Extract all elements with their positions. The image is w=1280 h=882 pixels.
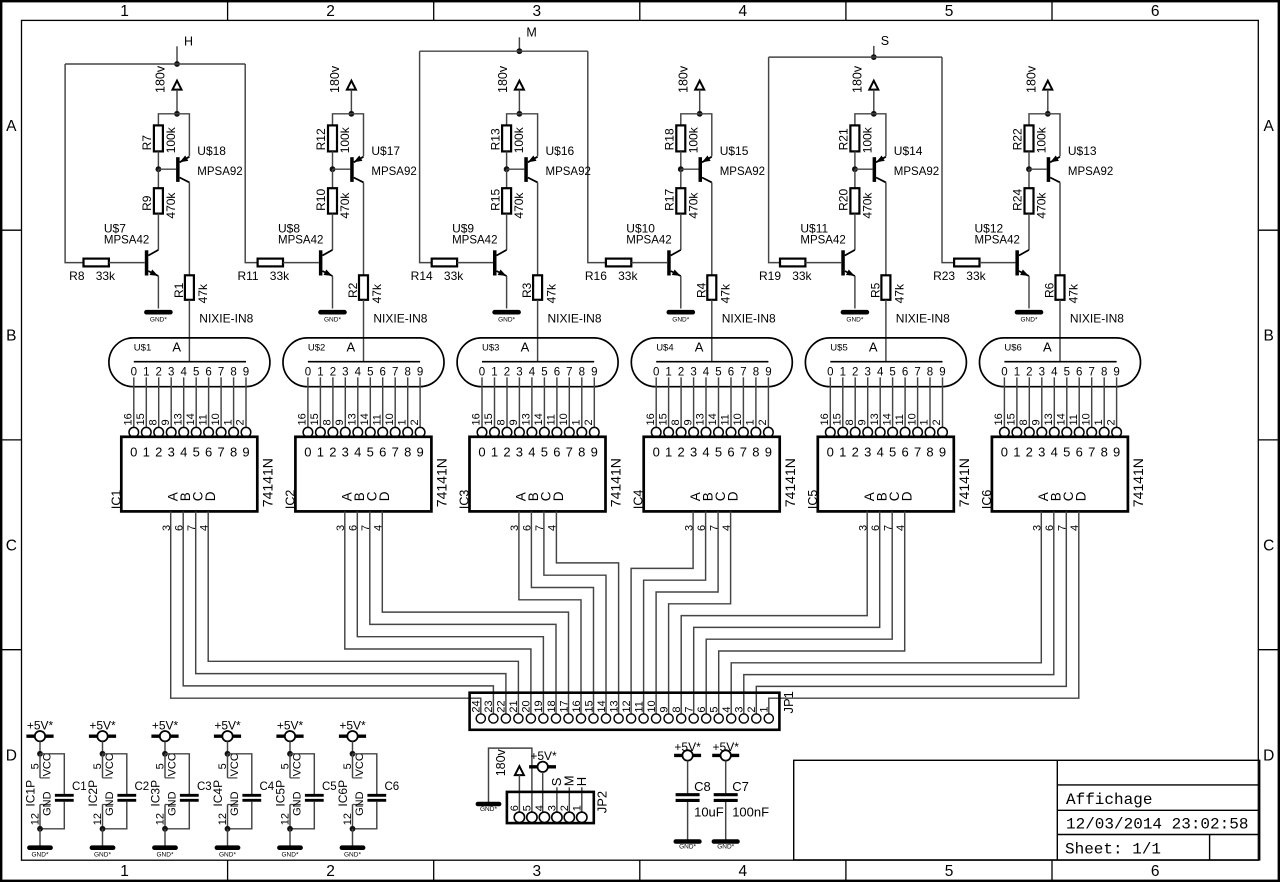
svg-text:8: 8 bbox=[753, 367, 759, 379]
resistor R24 470k bbox=[1011, 188, 1049, 218]
svg-text:8: 8 bbox=[1018, 419, 1030, 425]
svg-text:A: A bbox=[695, 339, 704, 354]
svg-text:R12: R12 bbox=[314, 128, 328, 150]
transistor U$8 MPSA42 (NPN) bbox=[278, 221, 333, 276]
supply +5V for IC5P bbox=[276, 719, 303, 742]
svg-text:GND: GND bbox=[229, 791, 241, 816]
ground bbox=[843, 312, 867, 323]
svg-text:R13: R13 bbox=[488, 128, 502, 150]
ground bbox=[29, 848, 50, 859]
svg-text:13: 13 bbox=[608, 700, 620, 712]
svg-text:13: 13 bbox=[1043, 413, 1055, 425]
svg-text:16: 16 bbox=[993, 413, 1005, 425]
svg-text:11: 11 bbox=[197, 414, 209, 425]
junction 180v rail bbox=[174, 111, 180, 117]
svg-text:1: 1 bbox=[571, 805, 583, 811]
svg-text:7: 7 bbox=[392, 367, 398, 379]
wire U$10 emitter to ground bbox=[680, 276, 682, 309]
wire IC4 pin 6 to JP1 pin 11 bbox=[644, 511, 706, 714]
svg-text:180v: 180v bbox=[494, 748, 508, 776]
svg-text:24: 24 bbox=[471, 700, 483, 712]
svg-text:NIXIE-IN8: NIXIE-IN8 bbox=[896, 312, 950, 326]
svg-text:2: 2 bbox=[155, 445, 162, 460]
svg-text:16: 16 bbox=[471, 413, 483, 425]
connector JP2 (6 pins) bbox=[507, 791, 610, 823]
svg-text:14: 14 bbox=[359, 413, 371, 425]
wire U$9 emitter to ground bbox=[506, 276, 508, 309]
svg-text:4: 4 bbox=[721, 706, 733, 712]
resistor R21 100k bbox=[837, 125, 875, 153]
svg-text:5: 5 bbox=[193, 367, 199, 379]
ground bbox=[495, 312, 519, 323]
resistor R17 470k bbox=[663, 188, 701, 218]
svg-text:13: 13 bbox=[172, 413, 184, 425]
svg-text:9: 9 bbox=[682, 419, 694, 425]
svg-text:IC1: IC1 bbox=[109, 490, 123, 510]
resistor R22 100k bbox=[1011, 125, 1049, 153]
svg-text:6: 6 bbox=[553, 445, 560, 460]
wire +5V to C8 bbox=[687, 761, 689, 794]
wire base of U$14 bbox=[855, 168, 873, 170]
ground bbox=[92, 848, 113, 859]
svg-text:5: 5 bbox=[155, 763, 167, 769]
junction H node bbox=[174, 61, 180, 67]
wire S down to R19 bbox=[769, 57, 780, 263]
svg-text:7: 7 bbox=[914, 367, 920, 379]
svg-text:2: 2 bbox=[329, 445, 336, 460]
svg-text:6: 6 bbox=[901, 445, 908, 460]
power gate IC5P pins VCC(5)/GND(12) bbox=[274, 753, 304, 829]
svg-text:74141N: 74141N bbox=[1130, 458, 1146, 507]
svg-text:R22: R22 bbox=[1011, 128, 1025, 150]
svg-text:M: M bbox=[526, 26, 536, 40]
svg-text:1: 1 bbox=[840, 367, 846, 379]
svg-text:2: 2 bbox=[757, 419, 769, 425]
wire 180v supply to rail bbox=[176, 90, 178, 114]
wire U$8 emitter to ground bbox=[332, 276, 334, 309]
svg-text:14: 14 bbox=[1056, 413, 1068, 425]
svg-text:21: 21 bbox=[508, 700, 520, 712]
resistor R5 47k bbox=[868, 275, 906, 303]
svg-text:R23: R23 bbox=[933, 269, 955, 283]
svg-text:GND*: GND* bbox=[94, 851, 111, 858]
svg-text:12: 12 bbox=[342, 813, 354, 825]
svg-text:MPSA92: MPSA92 bbox=[371, 166, 416, 178]
wire R15 to U$9 collector bbox=[506, 214, 508, 250]
wires nixie U$4 cathodes to IC4 bbox=[656, 377, 768, 427]
svg-text:47k: 47k bbox=[719, 283, 733, 303]
svg-text:6: 6 bbox=[902, 367, 908, 379]
svg-text:NIXIE-IN8: NIXIE-IN8 bbox=[722, 312, 776, 326]
svg-text:3: 3 bbox=[516, 367, 522, 379]
svg-text:3: 3 bbox=[864, 367, 870, 379]
svg-text:R17: R17 bbox=[663, 189, 677, 211]
svg-text:GND*: GND* bbox=[679, 844, 696, 851]
transistor U$10 MPSA42 (NPN) bbox=[626, 221, 681, 276]
svg-text:R4: R4 bbox=[694, 282, 708, 298]
svg-text:U$9: U$9 bbox=[452, 221, 474, 235]
wire R17 to U$10 collector bbox=[680, 214, 682, 250]
resistor R4 47k bbox=[694, 275, 732, 303]
svg-text:U$3: U$3 bbox=[482, 342, 499, 353]
svg-text:0: 0 bbox=[827, 367, 833, 379]
junction base divider bbox=[678, 166, 684, 172]
svg-text:6: 6 bbox=[554, 367, 560, 379]
svg-text:A: A bbox=[172, 339, 181, 354]
svg-text:180v: 180v bbox=[851, 65, 865, 93]
svg-text:13: 13 bbox=[521, 413, 533, 425]
svg-text:U$11: U$11 bbox=[800, 221, 828, 235]
svg-text:IC5P: IC5P bbox=[274, 780, 288, 807]
svg-text:3: 3 bbox=[1038, 445, 1045, 460]
ground bbox=[342, 848, 363, 859]
wire IC2 pin 4 to JP1 pin 17 bbox=[382, 511, 568, 714]
svg-text:9: 9 bbox=[508, 419, 520, 425]
wire R13 to base junction bbox=[506, 151, 508, 169]
svg-text:12: 12 bbox=[621, 700, 633, 712]
svg-text:4: 4 bbox=[1051, 445, 1058, 460]
svg-text:100k: 100k bbox=[1035, 126, 1049, 153]
svg-text:IC2: IC2 bbox=[283, 490, 297, 510]
junction 180v rail bbox=[517, 111, 523, 117]
wire R11 to U$8 base bbox=[283, 262, 319, 264]
svg-text:MPSA42: MPSA42 bbox=[452, 234, 497, 246]
svg-text:GND*: GND* bbox=[1021, 317, 1038, 324]
svg-text:4: 4 bbox=[528, 445, 535, 460]
svg-text:10: 10 bbox=[646, 700, 658, 712]
svg-text:R24: R24 bbox=[1011, 189, 1025, 211]
svg-text:Sheet: 1/1: Sheet: 1/1 bbox=[1065, 840, 1161, 858]
svg-text:U$4: U$4 bbox=[656, 342, 673, 353]
wire R16 to U$10 base bbox=[631, 262, 667, 264]
transistor U$18 MPSA92 (PNP) bbox=[176, 144, 243, 183]
resistor R13 100k bbox=[488, 125, 526, 153]
svg-text:470k: 470k bbox=[860, 192, 874, 219]
wire IC2 pin 3 to JP1 pin 20 bbox=[345, 511, 531, 714]
svg-text:33k: 33k bbox=[618, 269, 638, 283]
wire R12 to base junction bbox=[332, 151, 334, 169]
supply +5V for IC3P bbox=[151, 719, 178, 742]
svg-text:9: 9 bbox=[1031, 419, 1043, 425]
svg-text:NIXIE-IN8: NIXIE-IN8 bbox=[1070, 312, 1124, 326]
svg-text:GND*: GND* bbox=[219, 851, 236, 858]
wire U$16 collector to R3 bbox=[537, 182, 539, 275]
wires nixie U$3 cathodes to IC3 bbox=[482, 377, 594, 427]
junction base divider bbox=[1026, 166, 1032, 172]
svg-text:14: 14 bbox=[596, 700, 608, 712]
svg-text:470k: 470k bbox=[338, 192, 352, 219]
svg-text:0: 0 bbox=[305, 367, 311, 379]
supply +5V at C8 bbox=[674, 740, 701, 760]
svg-text:MPSA92: MPSA92 bbox=[720, 166, 765, 178]
svg-text:8: 8 bbox=[147, 419, 159, 425]
svg-text:1: 1 bbox=[665, 445, 672, 460]
svg-text:U$6: U$6 bbox=[1004, 342, 1021, 353]
svg-text:R2: R2 bbox=[346, 282, 360, 298]
svg-text:16: 16 bbox=[571, 700, 583, 712]
wires nixie U$2 cathodes to IC2 bbox=[308, 377, 420, 427]
svg-text:5: 5 bbox=[945, 863, 954, 880]
svg-text:VCC: VCC bbox=[354, 753, 366, 776]
svg-text:8: 8 bbox=[1101, 367, 1107, 379]
svg-text:8: 8 bbox=[322, 419, 334, 425]
supply +5V at JP2 pin 4 bbox=[529, 749, 557, 772]
wire 180v supply to rail bbox=[350, 90, 352, 114]
capacitor C3 decoupling bbox=[165, 754, 212, 829]
svg-text:15: 15 bbox=[135, 413, 147, 425]
resistor R19 33k bbox=[759, 259, 813, 283]
svg-text:470k: 470k bbox=[512, 192, 526, 219]
svg-text:100k: 100k bbox=[860, 126, 874, 153]
svg-text:R7: R7 bbox=[140, 135, 154, 151]
svg-text:5: 5 bbox=[521, 805, 533, 811]
svg-text:GND: GND bbox=[41, 791, 53, 816]
svg-text:100nF: 100nF bbox=[732, 805, 769, 820]
wire R7 to R9 bbox=[157, 169, 159, 188]
svg-text:U$13: U$13 bbox=[1068, 144, 1097, 158]
power gate IC4P pins VCC(5)/GND(12) bbox=[211, 753, 241, 829]
svg-text:74141N: 74141N bbox=[956, 458, 972, 507]
svg-text:17: 17 bbox=[558, 700, 570, 712]
wire to ground bbox=[352, 829, 354, 846]
wire IC2 pin 6 to JP1 pin 19 bbox=[357, 511, 543, 714]
svg-text:8: 8 bbox=[844, 419, 856, 425]
frame row letters bbox=[6, 118, 1275, 765]
svg-text:1: 1 bbox=[143, 367, 149, 379]
junction M node bbox=[517, 48, 523, 54]
wire H horizontal rail bbox=[65, 63, 245, 65]
svg-text:IC2P: IC2P bbox=[86, 780, 100, 807]
supply +5V at C7 bbox=[712, 740, 739, 760]
wire M down to R16 (next column) bbox=[588, 51, 606, 262]
svg-text:2: 2 bbox=[931, 419, 943, 425]
svg-text:6: 6 bbox=[1151, 3, 1160, 20]
power gate IC2P pins VCC(5)/GND(12) bbox=[86, 753, 116, 829]
svg-text:C2: C2 bbox=[135, 781, 150, 793]
svg-text:5: 5 bbox=[715, 367, 721, 379]
svg-text:13: 13 bbox=[869, 413, 881, 425]
wire IC5 pin 3 to JP1 pin 8 bbox=[681, 511, 867, 714]
svg-text:C: C bbox=[1263, 537, 1274, 554]
svg-text:1: 1 bbox=[839, 445, 846, 460]
wire 180v supply to rail bbox=[873, 90, 875, 114]
svg-text:D: D bbox=[377, 491, 392, 501]
svg-text:C1: C1 bbox=[72, 781, 87, 793]
svg-text:S: S bbox=[881, 34, 889, 48]
svg-text:9: 9 bbox=[765, 445, 772, 460]
ground bbox=[1017, 312, 1041, 323]
svg-text:GND: GND bbox=[291, 791, 303, 816]
junction GND pin bbox=[287, 826, 293, 832]
capacitor C1 decoupling bbox=[40, 754, 87, 829]
svg-text:GND*: GND* bbox=[672, 317, 689, 324]
svg-text:11: 11 bbox=[546, 414, 558, 425]
IC IC3 74141N driver bbox=[458, 413, 624, 531]
svg-text:D: D bbox=[1263, 748, 1274, 765]
svg-text:1: 1 bbox=[1093, 419, 1105, 425]
svg-text:14: 14 bbox=[533, 413, 545, 425]
svg-text:R6: R6 bbox=[1043, 282, 1057, 298]
wire 180v rail to R21 and U$14 emitter bbox=[855, 114, 886, 157]
wire C7 to ground bbox=[725, 802, 727, 840]
svg-text:R9: R9 bbox=[140, 195, 154, 211]
svg-text:7: 7 bbox=[914, 445, 921, 460]
svg-text:1: 1 bbox=[120, 863, 129, 880]
svg-text:C5: C5 bbox=[322, 781, 337, 793]
junction GND pin bbox=[225, 826, 231, 832]
svg-text:7: 7 bbox=[684, 706, 696, 712]
svg-text:7: 7 bbox=[217, 445, 224, 460]
svg-text:C6: C6 bbox=[385, 781, 400, 793]
svg-text:8: 8 bbox=[496, 419, 508, 425]
wires nixie U$1 cathodes to IC1 bbox=[134, 377, 246, 427]
svg-text:2: 2 bbox=[409, 419, 421, 425]
resistor R6 47k bbox=[1043, 275, 1081, 303]
svg-text:U$17: U$17 bbox=[371, 144, 400, 158]
svg-text:33k: 33k bbox=[96, 269, 116, 283]
svg-text:JP2: JP2 bbox=[595, 791, 610, 813]
svg-text:3: 3 bbox=[516, 445, 523, 460]
svg-text:VCC: VCC bbox=[104, 753, 116, 776]
wire R13 to R15 bbox=[506, 169, 508, 188]
svg-text:8: 8 bbox=[927, 367, 933, 379]
svg-text:33k: 33k bbox=[444, 269, 464, 283]
svg-text:3: 3 bbox=[1039, 367, 1045, 379]
svg-text:U$15: U$15 bbox=[720, 144, 749, 158]
ground bbox=[714, 842, 738, 851]
svg-text:2: 2 bbox=[1105, 419, 1117, 425]
svg-text:MPSA42: MPSA42 bbox=[278, 234, 323, 246]
svg-text:8: 8 bbox=[230, 367, 236, 379]
svg-text:9: 9 bbox=[939, 445, 946, 460]
node S net label and stub bbox=[874, 34, 889, 57]
svg-text:5: 5 bbox=[945, 3, 954, 20]
wire R5 to nixie anode bbox=[885, 300, 887, 362]
wire 180v supply to rail bbox=[518, 90, 520, 114]
transistor U$15 MPSA92 (PNP) bbox=[699, 144, 766, 183]
svg-text:4: 4 bbox=[877, 445, 884, 460]
wire H down to R11 (next column) bbox=[245, 64, 257, 263]
wire 180v rail to R13 and U$16 emitter bbox=[507, 114, 538, 157]
svg-text:100k: 100k bbox=[512, 126, 526, 153]
svg-text:0: 0 bbox=[1001, 367, 1007, 379]
capacitor C8 10uF bbox=[676, 779, 724, 820]
nixie tube U$4 NIXIE-IN8 bbox=[631, 338, 792, 387]
svg-text:U$2: U$2 bbox=[308, 342, 325, 353]
svg-text:A: A bbox=[6, 118, 17, 135]
svg-text:1: 1 bbox=[317, 445, 324, 460]
svg-text:NIXIE-IN8: NIXIE-IN8 bbox=[373, 312, 427, 326]
svg-text:9: 9 bbox=[242, 445, 249, 460]
svg-text:13: 13 bbox=[347, 413, 359, 425]
wire R3 to nixie anode bbox=[537, 300, 539, 362]
transistor U$14 MPSA92 (PNP) bbox=[873, 144, 940, 183]
wire base of U$16 bbox=[507, 168, 525, 170]
supply 180v column 6 bbox=[1025, 65, 1053, 93]
nixie tube U$6 NIXIE-IN8 bbox=[980, 338, 1141, 387]
svg-text:8: 8 bbox=[578, 445, 585, 460]
svg-text:R8: R8 bbox=[69, 269, 85, 283]
svg-text:12: 12 bbox=[155, 813, 167, 825]
svg-text:23: 23 bbox=[483, 700, 495, 712]
wire IC1 pin 3 to JP1 pin 24 bbox=[171, 511, 481, 714]
node M stub to JP2 pin 2 bbox=[562, 775, 577, 812]
svg-text:GND*: GND* bbox=[32, 851, 49, 858]
wire +5V to C7 bbox=[725, 761, 727, 794]
svg-text:MPSA92: MPSA92 bbox=[1068, 166, 1113, 178]
svg-text:8: 8 bbox=[579, 367, 585, 379]
svg-text:IC3P: IC3P bbox=[149, 780, 163, 807]
svg-text:C4: C4 bbox=[260, 781, 275, 793]
junction VCC bbox=[37, 751, 43, 757]
svg-text:JP1: JP1 bbox=[781, 691, 796, 713]
svg-text:GND*: GND* bbox=[498, 317, 515, 324]
svg-text:1: 1 bbox=[1013, 445, 1020, 460]
junction VCC bbox=[100, 751, 106, 757]
wire to ground bbox=[289, 829, 291, 846]
svg-text:9: 9 bbox=[1113, 445, 1120, 460]
ground bbox=[154, 848, 175, 859]
svg-text:4: 4 bbox=[534, 805, 546, 811]
svg-text:5: 5 bbox=[367, 367, 373, 379]
svg-text:6: 6 bbox=[696, 706, 708, 712]
IC IC2 74141N driver bbox=[283, 413, 449, 531]
svg-text:R10: R10 bbox=[314, 189, 328, 211]
ground bbox=[217, 848, 238, 859]
wire U$15 collector to R4 bbox=[711, 182, 713, 275]
svg-text:9: 9 bbox=[417, 367, 423, 379]
wire +5V to VCC pin bbox=[164, 741, 166, 753]
nixie tube U$5 NIXIE-IN8 bbox=[805, 338, 966, 387]
svg-text:1: 1 bbox=[1014, 367, 1020, 379]
svg-text:U$1: U$1 bbox=[134, 342, 151, 353]
svg-text:4: 4 bbox=[354, 445, 361, 460]
supply +5V for IC6P bbox=[339, 719, 366, 742]
svg-text:1: 1 bbox=[759, 706, 771, 712]
node M net label and stub bbox=[519, 26, 536, 52]
svg-text:15: 15 bbox=[309, 413, 321, 425]
wire R22 to R24 bbox=[1028, 169, 1030, 188]
svg-text:IC4P: IC4P bbox=[211, 780, 225, 807]
capacitor C6 decoupling bbox=[353, 754, 400, 829]
wire IC3 pin 7 to JP1 pin 14 bbox=[544, 511, 606, 714]
junction 180v rail bbox=[1045, 111, 1051, 117]
IC IC5 74141N driver bbox=[806, 413, 972, 531]
wire R22 to base junction bbox=[1028, 151, 1030, 169]
wire +5V to VCC pin bbox=[102, 741, 104, 753]
svg-text:3: 3 bbox=[546, 805, 558, 811]
svg-text:4: 4 bbox=[738, 863, 747, 880]
svg-text:1: 1 bbox=[919, 419, 931, 425]
svg-text:11: 11 bbox=[1068, 414, 1080, 425]
svg-text:4: 4 bbox=[355, 367, 362, 379]
svg-text:0: 0 bbox=[1001, 445, 1008, 460]
IC IC1 74141N driver bbox=[109, 413, 275, 531]
svg-text:B: B bbox=[1264, 328, 1274, 345]
svg-text:14: 14 bbox=[707, 413, 719, 425]
ground bbox=[146, 312, 170, 323]
node H stub to JP2 pin 1 bbox=[574, 777, 589, 813]
svg-text:5: 5 bbox=[715, 445, 722, 460]
wire R21 to base junction bbox=[854, 151, 856, 169]
svg-text:15: 15 bbox=[657, 413, 669, 425]
svg-text:8: 8 bbox=[1101, 445, 1108, 460]
svg-text:A: A bbox=[1043, 339, 1052, 354]
ground bbox=[676, 842, 700, 851]
wire R7 to base junction bbox=[157, 151, 159, 169]
svg-text:7: 7 bbox=[218, 367, 224, 379]
wire +5V to VCC pin bbox=[352, 741, 354, 753]
